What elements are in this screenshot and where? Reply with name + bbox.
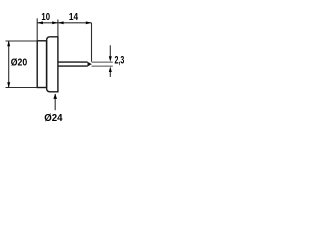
- 2,3 extension top: [92, 61, 113, 63]
- arrow 14 right: [86, 21, 92, 24]
- dimension line top (10 and 14): [37, 22, 91, 24]
- extension line right x=91.5: [91, 23, 93, 62]
- disc Ø20 body outline: [37, 41, 46, 88]
- pin Ø2.3 bottom line: [58, 65, 88, 67]
- arrow Ø20 up: [7, 41, 10, 47]
- extension line middle x=57.9: [57, 20, 59, 37]
- svg-text:2,3: 2,3: [115, 55, 125, 67]
- svg-text:14: 14: [69, 12, 78, 23]
- extension line left x=37.2: [36, 18, 38, 40]
- arrow 2,3 down: [109, 56, 112, 62]
- Ø24 leader line: [54, 94, 56, 110]
- arrow 2,3 up: [109, 67, 112, 73]
- svg-text:Ø24: Ø24: [44, 113, 62, 123]
- Ø20 extension top: [6, 40, 38, 42]
- 2,3 dimension tail up: [109, 45, 111, 57]
- Ø20 extension bottom: [6, 87, 38, 89]
- arrow Ø20 down: [7, 82, 10, 88]
- svg-text:Ø20: Ø20: [11, 58, 28, 69]
- pin conical tip: [88, 62, 92, 67]
- pin Ø2.3 top line: [58, 61, 88, 63]
- Ø20 dimension line: [8, 41, 10, 88]
- 2,3 dimension tail down: [109, 71, 111, 77]
- arrow 14 left: [58, 21, 64, 24]
- 2,3 extension bottom: [92, 65, 113, 67]
- step Ø24 body outline: [47, 37, 58, 92]
- arrow 10 left: [37, 21, 43, 24]
- arrow Ø24 up: [53, 94, 57, 99]
- svg-text:10: 10: [41, 12, 50, 23]
- arrow 10 right: [52, 21, 58, 24]
